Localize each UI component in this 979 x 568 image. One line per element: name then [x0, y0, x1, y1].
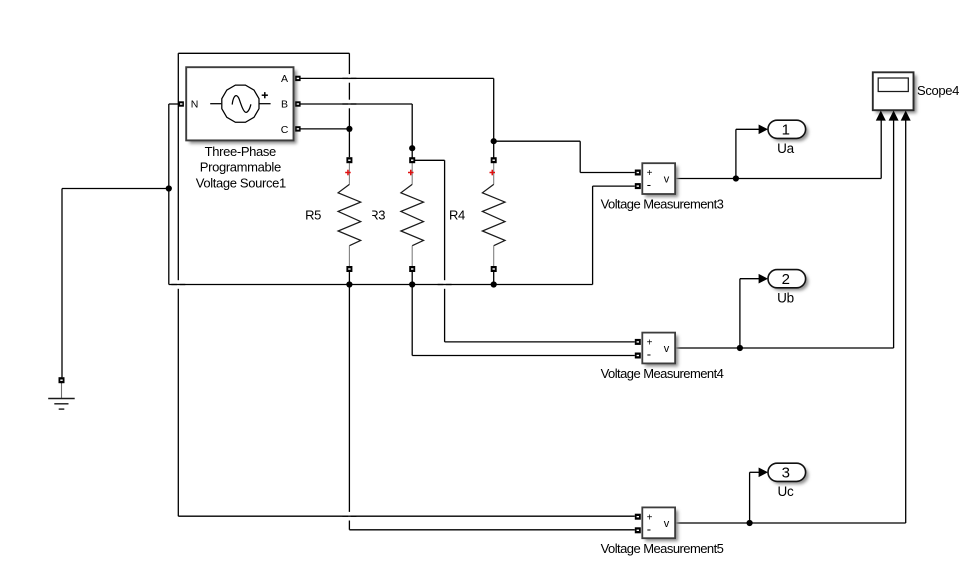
wire: N port to left riser — [169, 103, 179, 105]
junction dot: VM3 output branch — [733, 175, 739, 181]
svg-text:v: v — [664, 518, 670, 530]
label Uc — [778, 484, 794, 499]
port N of source — [179, 101, 184, 106]
wire: bus riser to VM3 minus — [592, 186, 594, 284]
svg-text:R4: R4 — [449, 208, 465, 223]
wire: ground branch horizontal — [62, 188, 169, 190]
svg-text:Voltage Measurement4: Voltage Measurement4 — [601, 366, 724, 381]
resistor R4 body (series RLC branch) — [482, 163, 505, 266]
svg-text:N: N — [191, 99, 198, 111]
wire: drop x=444.6 to VM4 plus level — [444, 160, 446, 342]
resistor R4 top port — [491, 157, 497, 163]
wire: riser to Out3 — [749, 472, 751, 523]
svg-text:A: A — [281, 73, 288, 85]
wire: ground drop x=62 — [61, 189, 63, 378]
svg-text:-: - — [647, 521, 651, 536]
arrowhead scope input 3 — [901, 111, 911, 121]
wire: VM5 plus horizontal — [178, 515, 635, 517]
junction dot: R5 bottom on bus — [346, 281, 352, 287]
Voltage Measurement4 minus input port — [635, 353, 641, 359]
ground symbol — [48, 383, 74, 409]
resistor R5 red polarity plus — [345, 170, 351, 176]
svg-text:B: B — [281, 99, 288, 111]
wire: drop x=580 to VM3 plus level — [579, 141, 581, 172]
label: Voltage Measurement4 — [601, 366, 724, 381]
wire: vertical x=349 top wire down to R5 top — [348, 53, 350, 157]
value label R5 — [305, 208, 321, 223]
arrowhead into port 3 — [759, 468, 768, 478]
svg-text:2: 2 — [782, 271, 790, 288]
label Ub — [777, 290, 794, 305]
wire: R4 top branch to right — [494, 140, 581, 142]
svg-text:C: C — [281, 124, 289, 136]
arrowhead into port 2 — [759, 274, 768, 284]
junction dot: R3 bottom on bus — [409, 281, 415, 287]
wire crossings (gap in vertical line) — [171, 74, 451, 520]
svg-text:R5: R5 — [305, 208, 321, 223]
resistor R5 bottom port — [346, 266, 352, 272]
svg-text:Voltage Source1: Voltage Source1 — [196, 175, 286, 190]
wire: R3 top branch right — [415, 159, 445, 161]
label Scope4 — [917, 83, 959, 98]
voltage measurement block U3 (Voltage Measurement3) — [642, 163, 678, 197]
ground port square — [59, 377, 65, 383]
Voltage Measurement5 plus input port — [635, 514, 641, 520]
junction dot: phase B / R3 top — [409, 145, 415, 151]
Voltage Measurement3 plus input port — [635, 170, 641, 176]
wire: into VM3 plus — [580, 172, 635, 174]
wire: neutral bus — [169, 284, 593, 286]
wire: R3 bus drop to VM4 minus level — [411, 285, 413, 356]
wire: phase A horizontal — [300, 77, 493, 79]
scope block Scope4 — [873, 72, 917, 113]
wire: phase A down to R4 top — [493, 78, 495, 158]
arrowhead scope input 1 — [876, 111, 886, 121]
voltage measurement block U5 (Voltage Measurement5) — [642, 507, 678, 541]
wire: R5 bus drop to VM5 minus level — [348, 285, 350, 530]
output port 3 (Uc) — [768, 463, 808, 484]
arrowhead into port 1 — [759, 125, 768, 135]
output port 1 (Ua) — [768, 120, 808, 141]
label: Voltage Measurement5 — [601, 541, 724, 556]
wire: scope riser 2 — [893, 120, 895, 348]
wire: riser to Out1 — [735, 129, 737, 178]
svg-text:Voltage Measurement3: Voltage Measurement3 — [601, 197, 724, 212]
svg-text:Ub: Ub — [777, 290, 794, 305]
label: Three-Phase Programmable Voltage Source1 — [196, 144, 286, 190]
junction dot: R4 bottom on bus — [491, 281, 497, 287]
svg-text:Programmable: Programmable — [200, 160, 281, 175]
wire: into Out3 arrow — [750, 471, 760, 473]
value label R3 (stem of R occluded) — [369, 208, 385, 223]
port C of source — [295, 126, 300, 131]
svg-text:Scope4: Scope4 — [917, 83, 959, 98]
wire: R5 bottom to bus — [348, 272, 350, 285]
wire: into Out2 arrow — [740, 278, 759, 280]
svg-text:v: v — [664, 174, 670, 186]
wire: into VM3 minus — [593, 185, 635, 187]
wire: VM5 output — [675, 522, 906, 524]
Voltage Measurement5 minus input port — [635, 527, 641, 533]
resistor R4 bottom port — [491, 266, 497, 272]
wire: VM4 output — [675, 347, 893, 349]
svg-text:Three-Phase: Three-Phase — [205, 144, 276, 159]
svg-text:Voltage Measurement5: Voltage Measurement5 — [601, 541, 724, 556]
label: Voltage Measurement3 — [601, 197, 724, 212]
wire: long left riser x=178 (phase C to VM5+) — [177, 53, 179, 516]
svg-text:-: - — [647, 347, 651, 362]
wire: into VM4 minus — [412, 355, 635, 357]
wire: into VM4 plus — [445, 341, 635, 343]
junction dot: phase C / R5 riser — [346, 126, 352, 132]
svg-text:Uc: Uc — [778, 484, 794, 499]
wire: riser to Out2 — [739, 279, 741, 348]
label Ua — [777, 141, 794, 156]
svg-text:v: v — [664, 343, 670, 355]
resistor R5 body (series RLC branch) — [338, 163, 361, 266]
svg-text:3: 3 — [782, 465, 790, 482]
junction dot: N riser / ground branch — [166, 185, 172, 191]
wire: phase C from source to R5 riser — [300, 128, 349, 130]
wire: stub into ground port — [61, 377, 63, 383]
resistor R3 red polarity plus — [408, 170, 414, 176]
Voltage Measurement4 plus input port — [635, 339, 641, 345]
wire: phase B horizontal — [300, 103, 412, 105]
wire: R4 bottom to bus — [493, 272, 495, 285]
resistor R4 red polarity plus — [490, 170, 496, 176]
junction dot: VM4 output branch — [737, 345, 743, 351]
svg-text:-: - — [647, 177, 651, 192]
svg-text:1: 1 — [782, 122, 790, 139]
resistor R3 body (series RLC branch) — [401, 163, 424, 266]
wire: phase B down to R3 top — [411, 104, 413, 159]
wire: into Out1 arrow — [736, 128, 759, 130]
Voltage Measurement3 minus input port — [635, 183, 641, 189]
wire: VM3 output — [675, 178, 881, 180]
junction dot: VM5 output branch — [747, 520, 753, 526]
wire: left riser x=169 down to neutral bus — [168, 104, 170, 285]
resistor R3 top port — [409, 157, 415, 163]
voltage measurement block U4 (Voltage Measurement4) — [642, 333, 678, 367]
resistor R3 bottom port — [409, 266, 415, 272]
wire: scope riser 3 — [905, 120, 907, 523]
three-phase programmable voltage source block Source1 — [186, 67, 297, 143]
svg-text:Ua: Ua — [777, 141, 794, 156]
wire: top horizontal from x=178 to x=349 — [178, 52, 349, 54]
port B of source — [295, 101, 300, 106]
wire: R3 bottom to bus — [411, 272, 413, 285]
output port 2 (Ub) — [768, 270, 808, 291]
source block pin labels N A B C — [191, 73, 289, 136]
junction dot: phase A / R4 top — [491, 138, 497, 144]
value label R4 — [449, 208, 465, 223]
port A of source — [295, 76, 300, 81]
resistor R5 top port — [346, 157, 352, 163]
arrowhead scope input 2 — [889, 111, 899, 121]
wire: into VM5 minus — [349, 529, 634, 531]
wire: scope riser 1 — [880, 120, 882, 178]
